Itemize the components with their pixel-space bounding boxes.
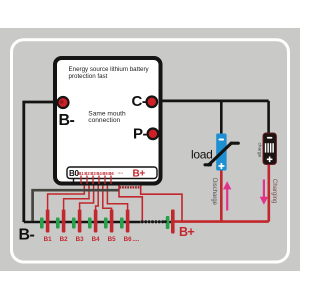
svg-text:B6: B6 — [108, 171, 114, 176]
svg-text:C-: C- — [132, 93, 147, 110]
svg-text:Charging: Charging — [271, 179, 277, 203]
svg-text:connection: connection — [88, 117, 120, 124]
svg-text:load: load — [191, 148, 213, 162]
wire battery negative rail — [24, 221, 141, 224]
wire sense B3 — [80, 184, 94, 211]
pin labels B1-B6 — [78, 171, 114, 176]
svg-text:B-: B- — [19, 226, 35, 243]
wire B+ inner branch — [119, 186, 142, 221]
pin header box — [67, 167, 157, 179]
svg-text:B2: B2 — [60, 236, 68, 243]
svg-text:B4: B4 — [92, 236, 100, 243]
discharge arrow — [226, 189, 228, 211]
switch lever — [205, 143, 238, 165]
wire discharge red — [220, 170, 223, 222]
charger U2 — [263, 133, 276, 165]
charger plus — [267, 157, 273, 163]
terminal B- — [58, 97, 69, 108]
wire down to load — [220, 101, 223, 135]
svg-text:Discharge: Discharge — [211, 178, 217, 206]
wire B0 dark under box — [33, 190, 119, 221]
wire sense B5 — [103, 184, 112, 211]
pin stubs — [81, 176, 111, 185]
cell labels — [44, 236, 132, 243]
pin stub B0 — [73, 179, 75, 185]
wire sense B6 — [107, 184, 127, 211]
svg-text:B+: B+ — [133, 169, 146, 180]
svg-text:charge: charge — [257, 143, 263, 158]
wire C- to load and charger — [156, 100, 269, 103]
svg-text:B1: B1 — [44, 236, 52, 243]
svg-text:Energy source lithium battery: Energy source lithium battery — [69, 66, 150, 73]
charging arrow — [263, 180, 265, 198]
rail dots — [141, 220, 167, 223]
red dashes under box — [120, 186, 140, 188]
svg-text:B3: B3 — [76, 236, 84, 243]
charger grill — [265, 143, 274, 152]
wire rail stub after dots — [167, 221, 172, 223]
svg-text:B5: B5 — [108, 236, 116, 243]
wire sense B2 — [64, 184, 89, 211]
battery cell B6 — [120, 210, 129, 233]
load box (switch) — [216, 134, 226, 171]
svg-text:B+: B+ — [179, 225, 194, 239]
wire down to charger — [267, 101, 270, 134]
battery cell B1 — [40, 210, 49, 233]
svg-text:B6: B6 — [124, 236, 132, 243]
battery cell Bn (last) — [166, 210, 175, 234]
battery cell B2 — [56, 210, 65, 233]
wire B- from BMS to left rail — [24, 102, 58, 222]
svg-text:B-: B- — [59, 112, 75, 129]
terminal P- — [148, 129, 159, 140]
battery cell B3 — [72, 210, 81, 233]
wire charge red — [267, 164, 270, 222]
wire sense B1 — [48, 184, 85, 211]
svg-text:....: .... — [118, 170, 124, 176]
svg-text:P-: P- — [133, 126, 148, 143]
BMS board U1 — [55, 58, 161, 184]
terminal C- — [147, 97, 158, 108]
wire red positive rail B+ — [172, 220, 269, 223]
battery cell B5 — [104, 210, 113, 233]
battery cell B4 — [88, 210, 97, 233]
svg-text:protection fast: protection fast — [69, 73, 108, 80]
wire B+ sense from BMS — [141, 184, 182, 222]
svg-text:....: .... — [133, 237, 140, 243]
wire sense B4 — [96, 184, 99, 211]
